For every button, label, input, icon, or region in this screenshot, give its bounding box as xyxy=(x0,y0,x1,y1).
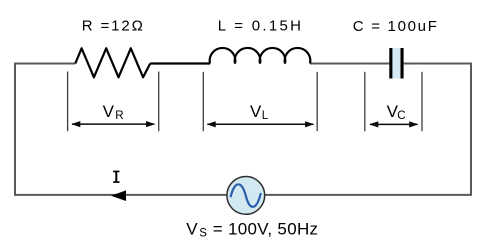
svg-text:V: V xyxy=(186,219,198,238)
AC source VS circle xyxy=(227,177,265,215)
svg-text:L: L xyxy=(262,110,269,122)
svg-text:= 100V, 50Hz: = 100V, 50Hz xyxy=(213,219,319,238)
dimension boundary line VR left xyxy=(67,72,69,132)
label VL xyxy=(250,102,269,122)
capacitor C body fill xyxy=(389,48,403,79)
dimension boundary line VC right xyxy=(421,72,423,131)
svg-text:S: S xyxy=(199,228,207,240)
capacitor C right plate xyxy=(401,48,404,79)
wire resistor-to-inductor xyxy=(150,62,210,64)
svg-text:C: C xyxy=(397,110,405,122)
label VC xyxy=(387,102,406,122)
svg-text:C = 100uF: C = 100uF xyxy=(353,18,439,35)
wire top-left + left side + bottom + right side + top-right (outer loop) xyxy=(15,64,471,195)
label I xyxy=(113,171,119,183)
wire inductor-to-capacitor xyxy=(310,63,390,65)
svg-text:L = 0.15H: L = 0.15H xyxy=(218,18,304,35)
capacitor C left plate xyxy=(389,48,392,79)
dimension boundary line VC left xyxy=(364,72,366,131)
AC source VS sine wave xyxy=(231,184,261,207)
svg-text:R: R xyxy=(115,110,123,122)
dimension arrow VR xyxy=(71,121,155,127)
resistor R xyxy=(75,48,150,77)
label VR xyxy=(103,102,124,122)
current arrow I (arrowhead on bottom wire) xyxy=(111,190,126,201)
dimension arrow VC xyxy=(369,121,418,127)
dimension arrow VL xyxy=(207,121,314,127)
svg-text:V: V xyxy=(103,102,115,121)
svg-text:V: V xyxy=(250,102,262,121)
svg-text:R =12Ω: R =12Ω xyxy=(82,18,145,35)
dimension boundary line VL right xyxy=(316,72,318,131)
inductor L xyxy=(210,48,311,64)
dimension boundary line VR right xyxy=(158,72,160,132)
dimension boundary line VL left xyxy=(202,72,204,131)
label VS value xyxy=(186,219,318,239)
